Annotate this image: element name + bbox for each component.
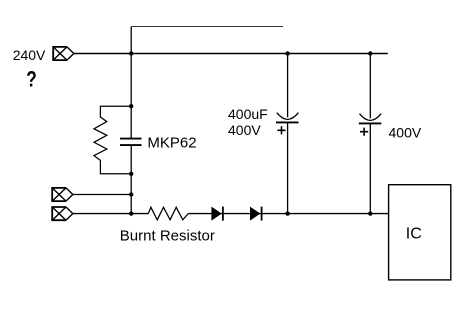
svg-text:240V: 240V	[13, 47, 46, 63]
svg-text:400V: 400V	[228, 122, 261, 138]
svg-text:Burnt Resistor: Burnt Resistor	[120, 228, 215, 245]
svg-text:?: ?	[26, 68, 36, 93]
svg-text:MKP62: MKP62	[147, 135, 196, 152]
svg-text:IC: IC	[406, 226, 422, 243]
svg-text:400uF: 400uF	[228, 106, 268, 122]
svg-text:400V: 400V	[389, 124, 422, 140]
